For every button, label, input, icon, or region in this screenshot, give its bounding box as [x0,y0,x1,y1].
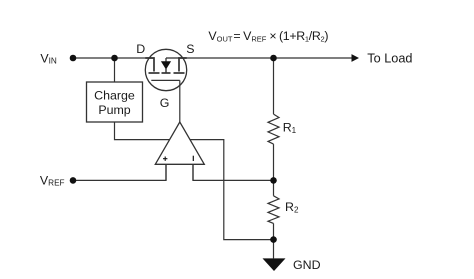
node: ground junction [270,236,277,243]
svg-text:Pump: Pump [98,103,130,117]
svg-text:S: S [186,42,194,56]
transistor Q1 (P-MOSFET) [145,49,186,90]
svg-text:GND: GND [293,258,321,272]
gate bar [151,79,180,81]
svg-text:D: D [136,42,145,56]
op-amp U1 [155,122,204,164]
svg-text:To Load: To Load [367,51,412,65]
wire: VIN to MOSFET drain [73,57,154,59]
wire: ground node down to GND symbol [273,240,275,259]
op-amp + input stub [165,164,167,180]
wire: output node down to R1 top [273,58,275,114]
wire: R2 bottom to ground node [273,223,275,239]
drain lead + contact bar [145,58,154,72]
wire: VREF to op-amp + input [73,164,166,180]
wire: feedback node down to R2 top [273,180,275,195]
wire: charge pump bottom to ground node (passes behind op-amp) [115,122,274,240]
op-amp inverting marker (vertical tick) [192,156,194,161]
node: R1/R2 feedback junction [270,177,277,184]
body tie from arrow to source [166,57,179,59]
to-load arrowhead [352,54,360,62]
wire: R1 bottom to feedback node [273,144,275,180]
wire: VIN junction down to charge pump [114,58,116,82]
node: output junction [270,55,277,62]
op-amp - input stub [192,164,194,180]
svg-text:×: × [269,29,276,43]
wire: MOSFET source to output node and to load arrow [179,57,352,59]
wire: op-amp - input to feedback node [193,164,274,180]
body arrow (points down) [165,58,167,62]
resistor R1 [268,114,279,144]
source lead + contact bar [179,58,187,72]
svg-text:Charge: Charge [94,89,135,103]
resistor R2 [268,196,279,224]
node: VIN terminal dot [70,55,77,62]
wire: MOSFET gate to op-amp output [179,80,181,122]
svg-text:=: = [233,29,240,43]
svg-text:G: G [160,96,170,110]
node: VREF terminal dot [70,177,77,184]
op-amp + marker [163,157,167,161]
node: VIN junction to charge pump [111,55,118,62]
charge pump box [87,82,143,122]
ground [263,258,286,271]
channel segments [149,72,160,74]
